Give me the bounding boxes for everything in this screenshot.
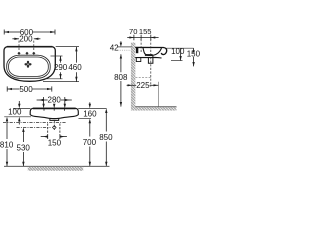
ext line apron bottom (side)	[171, 60, 183, 62]
fixing bracket (side)	[136, 58, 141, 62]
svg-text:810: 810	[0, 140, 14, 149]
svg-text:850: 850	[99, 133, 113, 142]
ext line bowl bottom right	[44, 78, 63, 80]
plan bowl inner line	[9, 57, 49, 76]
diamond node	[53, 126, 57, 130]
centreline horizontal 1	[3, 121, 66, 123]
tap hole centre	[25, 52, 28, 55]
dim 42	[117, 41, 131, 58]
hidden line grey (side)	[118, 49, 132, 51]
ext line underside left	[4, 116, 31, 118]
svg-text:290: 290	[54, 63, 68, 72]
ext line rim top right	[56, 46, 79, 48]
dim 160	[89, 102, 91, 108]
svg-text:150: 150	[187, 50, 200, 59]
svg-text:460: 460	[68, 63, 82, 72]
rim tick left	[43, 108, 45, 110]
dim 225	[127, 84, 159, 86]
dim 808	[120, 54, 122, 106]
basin underside (side)	[135, 56, 161, 59]
dim 810	[6, 117, 8, 167]
ext dashed tap centre (side)	[140, 39, 142, 53]
wall hatch	[131, 43, 135, 111]
plan outer rim	[4, 47, 55, 82]
dim 200	[12, 38, 40, 40]
svg-text:160: 160	[83, 109, 97, 118]
centreline horizontal 2	[17, 126, 51, 128]
svg-text:280: 280	[48, 96, 62, 105]
ext dashed tap right	[33, 41, 35, 52]
basin bowl profile (side)	[143, 48, 162, 56]
ext line rim top left	[13, 107, 30, 109]
ext arrow onto rim centre	[53, 104, 55, 109]
svg-text:100: 100	[171, 47, 185, 56]
dim 600	[4, 30, 55, 35]
dim 280	[37, 97, 72, 103]
dim 700	[89, 119, 91, 167]
dim 100 (front)	[18, 101, 20, 125]
basin back fixing blob	[136, 48, 138, 53]
front floor hatch	[28, 167, 83, 171]
tap hole left	[17, 52, 20, 55]
ext line bowl top right	[51, 55, 63, 57]
svg-text:808: 808	[114, 73, 128, 82]
ext arrow onto rim right	[64, 103, 66, 108]
plan rim top edge emphasis	[7, 46, 52, 48]
plan bowl outer line	[7, 55, 51, 78]
rim tick centre	[53, 108, 55, 110]
ext line rim top right long	[78, 107, 106, 109]
svg-text:70: 70	[129, 27, 137, 36]
svg-text:200: 200	[19, 35, 33, 44]
bowl bottom thick segment (side)	[145, 54, 153, 56]
side floor line	[135, 106, 176, 108]
ext line underside centre right	[79, 118, 92, 120]
ext line rim top right (side)	[167, 47, 194, 49]
svg-text:700: 700	[83, 138, 97, 147]
svg-text:150: 150	[48, 138, 62, 147]
front floor line	[4, 165, 110, 167]
ext line rim bottom right	[43, 81, 79, 83]
drain symbol	[25, 61, 32, 68]
svg-text:100: 100	[8, 107, 22, 116]
dim 500	[7, 86, 52, 91]
basin rim top (side)	[135, 47, 167, 54]
dim 70 155 line	[127, 35, 158, 41]
ext dashed tap left	[18, 41, 20, 52]
svg-text:500: 500	[19, 85, 33, 94]
ext dashed drain centre (side)	[150, 39, 152, 87]
tap hole right	[32, 52, 35, 55]
waste pipe line (side)	[157, 82, 159, 107]
hidden trap line grey (side)	[135, 77, 150, 79]
side floor hatch	[135, 107, 176, 110]
dim 150 (front)	[41, 124, 67, 140]
front outline	[30, 108, 78, 118]
drain stub (side)	[148, 56, 153, 64]
rim tick right	[64, 108, 66, 110]
svg-text:225: 225	[136, 81, 150, 90]
svg-text:530: 530	[17, 143, 31, 152]
dim 460	[75, 47, 77, 82]
dim 150 (side)	[192, 48, 194, 66]
ext arrow onto rim left	[42, 103, 44, 108]
dim 530	[22, 127, 24, 166]
front drain stub	[50, 119, 59, 121]
dim 290	[59, 56, 61, 79]
svg-text:155: 155	[139, 27, 152, 36]
front rim top edge emphasis	[33, 107, 76, 109]
centreline vertical drain	[53, 121, 55, 130]
svg-text:42: 42	[110, 43, 119, 52]
dim 850	[105, 108, 107, 166]
